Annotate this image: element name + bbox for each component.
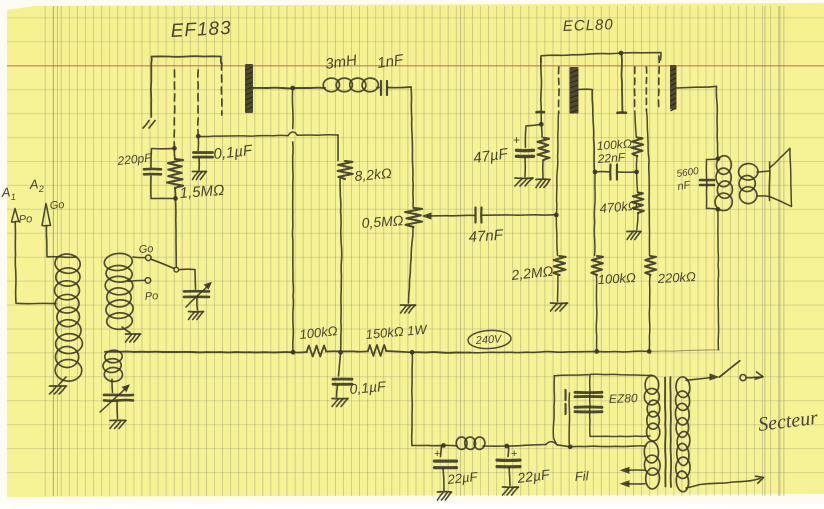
switch pole — [174, 267, 179, 272]
resistor R9 470k — [636, 172, 639, 192]
filament lead 1 — [627, 469, 645, 471]
svg-text:0,5MΩ: 0,5MΩ — [361, 212, 404, 231]
svg-text:Go: Go — [138, 243, 153, 256]
wire down to volume pot — [411, 87, 413, 207]
antenna arrow Go — [42, 204, 51, 227]
node bus x293 — [291, 350, 296, 355]
ground C9 — [438, 491, 452, 493]
tube V1 left lead (control grid) — [150, 63, 152, 117]
ground under L2 — [59, 377, 66, 385]
ground under C3 — [193, 171, 207, 173]
ground CV2 — [189, 311, 204, 313]
node C9 — [441, 443, 446, 448]
triode grid lead down — [556, 113, 558, 215]
power transformer LV winding — [644, 441, 659, 463]
svg-text:240V: 240V — [474, 333, 503, 347]
svg-text:2: 2 — [37, 184, 44, 194]
pentode cathode line — [621, 53, 622, 112]
svg-text:+: + — [434, 448, 440, 460]
wire coil L3 top to Go contact — [133, 256, 145, 259]
capacitor C2 1nF — [380, 81, 382, 95]
wire filter bus — [412, 444, 444, 446]
node anode/coupling — [593, 170, 598, 175]
wire C2 to right vertical — [388, 86, 412, 89]
capacitor C4 47nF coupling — [447, 214, 475, 217]
svg-text:EZ80: EZ80 — [609, 391, 638, 406]
wire Go down to coil top — [46, 226, 76, 257]
triode cathode tick — [537, 111, 545, 114]
band switch contact Po — [145, 278, 151, 284]
speaker horn — [757, 171, 770, 172]
capacitor C3 0,1uF — [197, 136, 199, 150]
resistor R3 100k — [307, 346, 326, 357]
variable capacitor CV2 — [184, 290, 209, 293]
switch blade S1 — [720, 361, 740, 377]
node OT top — [716, 156, 721, 161]
faint bus extension to output stage — [649, 350, 717, 352]
wire B+ takeoff — [554, 375, 589, 376]
coil L4 small — [104, 350, 122, 363]
capacitor C8 5600nF across primary — [706, 159, 718, 210]
wire OT bottom down to bus — [717, 209, 720, 350]
svg-text:EF183: EF183 — [170, 18, 232, 42]
resistor R2 8,2k — [337, 135, 339, 161]
ground CV1 — [110, 419, 126, 421]
node bus/R2 — [338, 350, 343, 355]
node at x292 — [290, 86, 295, 91]
wire pole to CV2 — [179, 269, 196, 289]
EZ80 cathode ticks — [564, 390, 566, 400]
variable capacitor CV1 — [111, 379, 114, 393]
capacitor C7 22nF — [595, 171, 610, 173]
EZ80 anode plates — [575, 391, 602, 394]
capacitor C5 0,1uF on bus — [339, 352, 341, 376]
svg-text:+: + — [513, 133, 520, 147]
inductor L1 3mH — [323, 78, 340, 92]
wire x292 vertical down to bus — [291, 88, 294, 129]
filament lead 2 — [627, 483, 645, 485]
ground R6 — [551, 302, 568, 304]
ground C10 — [503, 486, 519, 488]
speaker coil secondary — [738, 163, 758, 180]
node grid junction — [172, 146, 177, 151]
svg-text:+: + — [511, 448, 517, 460]
svg-text:220kΩ: 220kΩ — [656, 269, 696, 286]
wire Po contact to coil tap — [128, 280, 145, 281]
node bus/R10 — [647, 349, 652, 354]
triode anode bar — [570, 67, 579, 114]
node top — [619, 51, 624, 56]
wire pot to ground — [409, 227, 414, 303]
ground C5 — [332, 398, 348, 400]
svg-text:100kΩ: 100kΩ — [597, 270, 636, 287]
choke L5 — [456, 437, 467, 450]
antenna arrow Po small — [12, 209, 19, 223]
svg-text:A: A — [28, 176, 39, 192]
svg-text:47nF: 47nF — [468, 227, 504, 246]
resistor R6 2,2M grid leak — [556, 215, 557, 256]
svg-text:ECL80: ECL80 — [563, 16, 614, 35]
node below R1 — [173, 196, 178, 201]
power transformer HV winding — [645, 376, 659, 395]
ground under pot — [401, 304, 416, 306]
ground L3 — [122, 327, 130, 333]
ground R5 — [536, 178, 550, 180]
svg-text:1: 1 — [10, 192, 16, 202]
tube V1 grid (dashed) g3 — [220, 63, 223, 115]
svg-text:Go: Go — [49, 199, 64, 212]
transformer core — [664, 378, 667, 487]
grid pin tick V1 — [143, 121, 149, 129]
tube V1 grid (dashed) g2 — [197, 70, 199, 134]
svg-text:100kΩ: 100kΩ — [596, 137, 632, 153]
coil L2 antenna primary — [54, 253, 81, 275]
coil L3 secondary — [104, 252, 134, 272]
node R8/C7 — [634, 170, 639, 175]
wire pentode anode to output transformer — [677, 86, 718, 158]
wire mains bottom — [686, 481, 750, 488]
ground R9 — [627, 230, 641, 232]
resistor R10 220k — [646, 110, 649, 256]
tube V2 top line — [541, 53, 661, 62]
transformer mains primary — [675, 376, 690, 398]
node bus/R7 — [594, 349, 599, 354]
node cathode — [539, 122, 544, 127]
wire cathode to node — [254, 87, 326, 90]
pentode grids dashed — [634, 67, 636, 110]
node grid/47nF — [554, 213, 559, 218]
tube V1 cathode bar — [245, 64, 253, 113]
tube V3 EZ80 box — [590, 374, 652, 436]
svg-text:Po: Po — [144, 290, 158, 303]
node OT bottom — [716, 207, 721, 212]
pot wiper arrow — [428, 215, 447, 217]
svg-text:0,1µF: 0,1µF — [349, 378, 388, 397]
switch blade — [151, 259, 174, 268]
triode cathode lead — [540, 58, 543, 124]
output transformer primary — [716, 155, 732, 175]
svg-text:8,2kΩ: 8,2kΩ — [354, 165, 393, 184]
wire mains top to switch — [686, 378, 711, 381]
wire L1 to C2 — [377, 87, 379, 89]
svg-text:Po: Po — [18, 213, 32, 226]
resistor R8 100k to pentode grid — [635, 111, 637, 137]
wire bus x412 down — [411, 352, 414, 445]
resistor R1 1,5M — [167, 159, 183, 188]
switch contact — [740, 375, 746, 381]
ground C6 — [515, 177, 533, 179]
node bus x412 — [410, 350, 415, 355]
label 240V oval — [468, 329, 512, 349]
potentiometer P 0,5M — [405, 208, 422, 227]
pentode anode bar — [670, 65, 677, 110]
triode grid dashed — [558, 67, 560, 113]
resistor R7 100k anode load — [593, 172, 596, 256]
node C10 — [504, 444, 509, 449]
svg-text:1,5MΩ: 1,5MΩ — [179, 182, 225, 202]
svg-text:Fil: Fil — [574, 468, 590, 484]
wire to mains arrow — [746, 376, 754, 378]
wire A1/Po down and to coil — [15, 222, 56, 304]
tube V1 grid (dashed) g1 — [173, 70, 176, 146]
wire screen line right with hop — [198, 135, 288, 136]
wire EZ80 cathode down — [568, 393, 570, 444]
node screen junction — [196, 134, 201, 139]
wire HT bus — [105, 351, 293, 354]
svg-text:A: A — [0, 184, 11, 200]
node EZ80 out — [568, 444, 573, 449]
wire main grid line down to band switch — [175, 198, 178, 266]
resistor R5 cathode — [540, 124, 543, 137]
resistor R4 150k 1W — [368, 345, 386, 356]
tube V1 EF183 anode top line — [152, 56, 222, 63]
triode anode L wire — [579, 89, 595, 172]
